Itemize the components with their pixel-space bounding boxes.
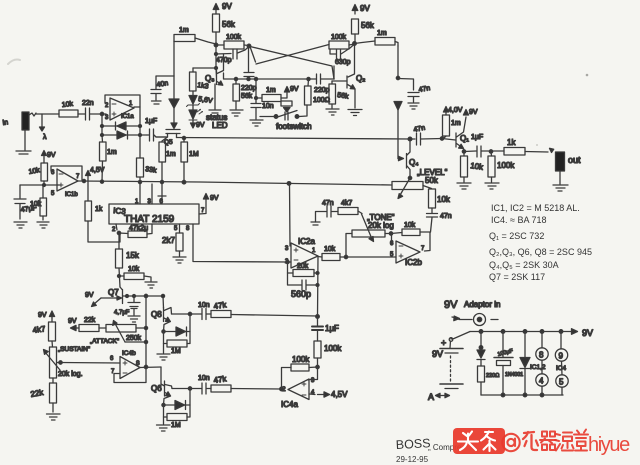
svg-text:+: +: [441, 338, 446, 348]
svg-text:4k7: 4k7: [341, 200, 352, 207]
resistor 47k (Q6 out): [211, 374, 282, 392]
wire to LED resistor: [193, 54, 216, 68]
resistor 10k (IC1b top): [28, 158, 47, 185]
svg-text:40n: 40n: [156, 80, 169, 89]
svg-text:630p: 630p: [335, 59, 351, 66]
svg-text:47k: 47k: [213, 374, 228, 385]
svg-text:10k: 10k: [128, 266, 140, 273]
resistor 33k: [137, 135, 158, 204]
watermark glyph qi: [540, 432, 556, 451]
svg-text:10k: 10k: [404, 222, 416, 229]
capacitor 47uF: [14, 185, 37, 228]
svg-text:22n: 22n: [82, 100, 94, 107]
resistor 1k3 (LED series): [190, 68, 209, 95]
input jack IN: [2, 112, 36, 154]
svg-text:50k: 50k: [425, 176, 439, 185]
svg-text:9V: 9V: [85, 292, 94, 299]
capacitor 40n with ground: [151, 76, 174, 104]
diode D1 (anti-parallel upper): [102, 122, 140, 130]
svg-text:9V: 9V: [222, 2, 232, 11]
capacitor 220p (series in bus): [314, 74, 334, 94]
resistor 10k (Q7 drain): [118, 266, 158, 288]
svg-text:4,5V: 4,5V: [331, 390, 348, 399]
svg-text:1m: 1m: [107, 149, 117, 156]
svg-text:1μF: 1μF: [145, 118, 157, 125]
svg-text:9V: 9V: [68, 318, 77, 325]
resistor 10k (level out): [423, 186, 451, 214]
resistor 100k (IC4a feedback): [282, 355, 318, 389]
svg-text:hiyue: hiyue: [588, 434, 630, 456]
svg-text:1m: 1m: [451, 120, 461, 127]
svg-text:9V: 9V: [210, 195, 219, 202]
capacitor 100uF: [494, 332, 514, 396]
op-amp IC1b: [51, 166, 82, 198]
svg-text:56k: 56k: [337, 92, 350, 101]
svg-text:100μF: 100μF: [497, 348, 514, 358]
wire crossover down to bus: [333, 66, 335, 79]
svg-text:λ: λ: [43, 134, 47, 141]
9V arrow (56k left): [213, 2, 232, 14]
signal bus wire y138: [177, 138, 413, 140]
resistor 10k (IC2a out): [318, 246, 396, 261]
svg-text:250k: 250k: [126, 335, 142, 342]
status LED: [189, 109, 205, 129]
transistor Q1: [442, 109, 478, 152]
capacitor 630p: [330, 44, 355, 66]
resistor 4k7 (tone): [338, 200, 362, 215]
svg-text:Q₄,Q₅ = 2SK 30A: Q₄,Q₅ = 2SK 30A: [489, 260, 559, 270]
IC3 pin 1: [135, 199, 139, 205]
diode (gate clamp): [169, 76, 179, 129]
svg-text:1M: 1M: [171, 422, 181, 429]
watermark toutiao red box: [453, 428, 630, 456]
capacitor 1uF (series to Q5): [145, 118, 166, 141]
diode (polarity) with 220 ohm: [477, 332, 485, 367]
resistor 47k (Q8 out): [211, 300, 318, 317]
svg-text:3: 3: [105, 115, 109, 121]
wire wiper to node: [125, 341, 146, 343]
svg-text:10n: 10n: [198, 302, 210, 309]
svg-text:10k: 10k: [437, 195, 451, 204]
resistor 56k (Q2 base): [326, 81, 349, 115]
FET Q4: [398, 139, 419, 178]
wire Q8 collector: [172, 313, 191, 315]
svg-text:2: 2: [112, 227, 116, 233]
resistor R 10k (input): [59, 101, 78, 117]
resistor 2k7 (IC3 pin5): [162, 224, 186, 263]
IC3 pin 8 wire to IC2a: [186, 224, 291, 262]
svg-text:100k: 100k: [324, 344, 342, 353]
label status LED: [206, 113, 228, 130]
resistor 100k (output load): [485, 152, 515, 190]
svg-text:IC2b: IC2b: [405, 258, 422, 267]
svg-text:15k: 15k: [126, 251, 140, 260]
resistor 20k (IC2a feedback): [288, 262, 318, 277]
op-amp IC1a: [105, 95, 140, 121]
FET Q5: [162, 130, 180, 147]
svg-text:1k3: 1k3: [197, 82, 209, 91]
capacitor 10n (footswitch): [250, 98, 274, 126]
transistor Q3: [205, 54, 224, 116]
svg-text:10k: 10k: [28, 167, 41, 176]
svg-text:4,0V: 4,0V: [448, 107, 463, 114]
diode D2 (anti-parallel lower): [102, 131, 147, 139]
9V arrow (56k right): [352, 4, 370, 14]
resistor 15k: [116, 233, 140, 287]
battery 9V: [428, 338, 463, 402]
wire Q6 collector: [172, 388, 190, 390]
svg-text:Q7 = 2SK 117: Q7 = 2SK 117: [489, 272, 545, 282]
svg-text:5,6V: 5,6V: [198, 96, 214, 105]
svg-text:20k log.: 20k log.: [58, 371, 83, 378]
wire 1uF to Q5: [156, 136, 168, 138]
svg-text:Q₂,Q₃, Q6, Q8 = 2SC 945: Q₂,Q₃, Q6, Q8 = 2SC 945: [489, 247, 592, 257]
svg-text:2k7: 2k7: [162, 236, 175, 245]
DC jack: [452, 314, 498, 326]
svg-text:47n: 47n: [322, 200, 334, 207]
wire IC2a output down: [317, 256, 320, 317]
svg-text:10k: 10k: [30, 201, 42, 208]
svg-text:22k: 22k: [84, 317, 96, 324]
svg-text:1m: 1m: [166, 151, 176, 158]
parts list IC types: [489, 203, 592, 282]
crossover left link: [251, 48, 256, 62]
svg-text:10k: 10k: [324, 246, 336, 253]
arrow at out jack: [550, 148, 554, 152]
capacitor 1uF (output): [464, 134, 491, 157]
watermark @ symbol: [502, 434, 519, 451]
svg-text:1m: 1m: [179, 27, 189, 34]
watermark glyph ke: [555, 433, 574, 451]
diode (Q4 gate line): [394, 102, 402, 159]
9V arrow (sustain top): [38, 311, 55, 319]
4,5V arrow at IC1b output: [86, 167, 105, 181]
svg-text:10n: 10n: [262, 103, 274, 110]
svg-text:5: 5: [174, 226, 178, 232]
transistor Q2: [332, 44, 365, 116]
node A arrow below input: [40, 114, 48, 141]
svg-text:9V: 9V: [582, 328, 593, 338]
svg-text:IC1a: IC1a: [121, 114, 134, 120]
IC3 pin 2: [112, 224, 117, 233]
capacitor 560p: [288, 273, 318, 299]
svg-text:9V: 9V: [38, 312, 47, 319]
capacitor 4,7uF: [114, 296, 140, 322]
footswitch: [260, 101, 312, 131]
ground (Q8 emitter): [157, 344, 170, 361]
potentiometer ATTACK 250k: [90, 321, 146, 346]
svg-text:47k: 47k: [213, 300, 228, 311]
svg-text:10n: 10n: [198, 375, 210, 382]
svg-text:6: 6: [110, 356, 114, 362]
wire attack node vertical: [145, 296, 147, 367]
svg-text:100k: 100k: [226, 34, 242, 41]
svg-text:„ATTACK“: „ATTACK“: [90, 338, 119, 345]
svg-text:56k: 56k: [222, 20, 236, 29]
svg-text:9V: 9V: [432, 349, 443, 359]
svg-text:9V: 9V: [444, 299, 458, 311]
svg-text:56k: 56k: [361, 21, 375, 30]
capacitor 22n: [78, 100, 106, 120]
svg-text:56k: 56k: [241, 93, 253, 100]
svg-text:A: A: [428, 392, 434, 402]
node at x102 input: [100, 112, 103, 115]
svg-text:100k: 100k: [497, 161, 515, 170]
svg-text:22k: 22k: [30, 388, 45, 399]
capacitor 470p: [216, 45, 249, 64]
svg-text:IC1,2: IC1,2: [530, 364, 546, 371]
svg-text:33k: 33k: [145, 166, 158, 175]
svg-text:in: in: [2, 119, 8, 127]
svg-text:220p: 220p: [241, 85, 257, 92]
resistor 1m (to clamp diode): [174, 27, 216, 44]
svg-text:Q6: Q6: [151, 384, 162, 393]
svg-text:IC1, IC2 = M 5218 AL.: IC1, IC2 = M 5218 AL.: [491, 203, 580, 213]
svg-text:IC4b: IC4b: [122, 350, 136, 357]
svg-text:20k: 20k: [297, 263, 309, 270]
svg-text:9V: 9V: [360, 4, 370, 13]
svg-text:6: 6: [51, 170, 55, 176]
IC3 pin 3 stub: [148, 184, 153, 205]
svg-text:9: 9: [559, 352, 564, 361]
svg-text:9V: 9V: [290, 86, 299, 93]
wire IC1b output bus y182: [78, 181, 392, 185]
svg-text:1M: 1M: [189, 151, 199, 158]
svg-text:footswitch: footswitch: [276, 122, 312, 131]
potentiometer SUSTAIN 20k log: [44, 346, 91, 378]
svg-text:220Ω: 220Ω: [486, 373, 499, 379]
power switch + 9V rail: [451, 328, 593, 339]
IC U3 THAT 2159: [109, 204, 199, 225]
diode (Q8): [164, 327, 191, 336]
resistor 1m (diode node to bus): [100, 135, 117, 182]
resistor 100k (to ref): [314, 341, 342, 367]
svg-text:BOSS: BOSS: [395, 436, 430, 452]
wire 1m down to Q4 gate: [397, 46, 399, 78]
wire input to R 10k: [36, 113, 59, 115]
svg-text:1M: 1M: [171, 348, 181, 355]
resistor 1M (Q8): [164, 314, 191, 355]
svg-text:1m: 1m: [266, 87, 276, 94]
resistor 56k (left bias): [213, 14, 236, 45]
svg-text:220p: 220p: [314, 87, 330, 94]
svg-text:8: 8: [186, 226, 190, 232]
wire bias rail y185: [20, 184, 58, 186]
svg-text:9V: 9V: [469, 109, 478, 116]
wire Q7 source bus y296: [127, 295, 163, 297]
svg-text:IC1b: IC1b: [65, 192, 78, 198]
svg-text:„SUSTAIN“: „SUSTAIN“: [58, 346, 90, 353]
IC power pin 8: [536, 332, 548, 361]
capacitor 47n (tone in): [427, 213, 452, 232]
watermark glyph tou: [458, 432, 478, 451]
svg-text:Q₄: Q₄: [409, 158, 419, 167]
svg-text:4,7μF: 4,7μF: [114, 310, 130, 316]
svg-text:29-12-95: 29-12-95: [396, 455, 429, 464]
resistor 220 ohm: [478, 366, 500, 395]
svg-text:5: 5: [559, 378, 564, 387]
svg-text:1: 1: [312, 248, 316, 254]
IC power pin 5: [556, 361, 568, 387]
svg-text:1: 1: [129, 101, 133, 107]
op-amp IC2a: [285, 237, 318, 268]
9V supply arrow (IC1b bias): [42, 151, 56, 160]
svg-text:47n: 47n: [413, 125, 426, 134]
resistor 10k (bias divider): [30, 185, 49, 228]
svg-text:1m: 1m: [377, 30, 387, 37]
svg-text:47n: 47n: [418, 85, 431, 94]
capacitor 10n (Q6 out): [190, 375, 211, 394]
wire Q3 collector to footswitch bus: [224, 73, 237, 79]
resistor 1m (Q1 base): [443, 107, 463, 139]
svg-text:8: 8: [539, 351, 544, 360]
capacitor 1uF (IC2a out): [312, 317, 339, 342]
crossover wire B: [256, 45, 329, 65]
resistor 56k (right bias): [352, 19, 375, 43]
svg-text:Q8: Q8: [151, 310, 162, 319]
svg-text:1N4001: 1N4001: [505, 372, 523, 378]
svg-text:47n: 47n: [440, 213, 452, 220]
svg-text:Q₂: Q₂: [356, 74, 365, 83]
wire 1m left end down: [173, 41, 175, 76]
capacitor 47n (tone) with ground: [311, 200, 338, 225]
IC3 pin 6 stub: [158, 184, 166, 205]
resistor 47k24 (IC3 bottom): [119, 224, 152, 238]
ground (Q6 emitter): [157, 417, 171, 431]
svg-text:100k: 100k: [331, 34, 347, 41]
resistor 1k to IC3: [85, 182, 120, 242]
svg-text:9V: 9V: [47, 152, 56, 159]
op-amp IC4b: [110, 350, 161, 383]
svg-text:5: 5: [51, 191, 55, 197]
FET Q7: [85, 287, 127, 307]
diode 1N4001: [505, 332, 530, 396]
9V Adaptor in label: [444, 299, 500, 311]
resistor 1M (Q5 right): [181, 139, 199, 183]
svg-text:Q₁: Q₁: [460, 134, 469, 143]
resistor 10k (IC2b feedback): [391, 222, 430, 251]
resistor 56k (footswitch left): [230, 79, 253, 116]
ground rail: [481, 394, 563, 396]
resistor 100k (right feedback): [329, 34, 355, 49]
wire bus to IC2a pin3: [289, 183, 292, 246]
svg-text:9V: 9V: [196, 122, 205, 129]
svg-text:IC4. ≈ BA 718: IC4. ≈ BA 718: [491, 215, 546, 225]
svg-text:Q₁ = 2SC 732: Q₁ = 2SC 732: [489, 231, 544, 241]
resistor 22k (sustain bottom): [30, 378, 60, 420]
svg-text:2: 2: [282, 386, 286, 393]
svg-text:7: 7: [76, 174, 80, 180]
resistor 10k (Q1 emitter): [457, 152, 485, 190]
capacitor 10n (Q8 out): [190, 302, 211, 320]
svg-text:10k: 10k: [470, 161, 485, 172]
watermark glyph tiao: [481, 432, 496, 452]
svg-text:LED: LED: [212, 121, 228, 130]
9V arrow (attack left): [68, 318, 79, 331]
output jack OUT: [553, 152, 581, 191]
svg-text:IC4a: IC4a: [281, 400, 298, 409]
svg-text:4,5V: 4,5V: [90, 167, 105, 174]
svg-text:4k7: 4k7: [32, 324, 47, 335]
svg-text:100Ω: 100Ω: [313, 97, 330, 104]
svg-text:1μF: 1μF: [471, 134, 483, 141]
resistor 1m (Q5 left): [159, 142, 176, 182]
potentiometer LEVEL 50k: [392, 168, 448, 199]
crossover wire A: [250, 47, 334, 80]
IC power pin 4: [536, 360, 548, 386]
svg-text:1k: 1k: [95, 206, 103, 213]
resistor 100 ohm (footswitch right): [305, 79, 331, 105]
svg-text:Adaptor in: Adaptor in: [464, 300, 500, 309]
svg-text:out: out: [568, 155, 581, 165]
wire IC1a output down: [134, 107, 140, 135]
svg-text:8: 8: [136, 360, 140, 367]
op-amp IC4a: [281, 367, 348, 409]
svg-text:THAT 2159: THAT 2159: [124, 214, 175, 225]
svg-text:3: 3: [285, 246, 289, 252]
svg-text:20k log: 20k log: [368, 221, 394, 230]
transistor Q8: [151, 296, 172, 332]
op-amp IC2b: [390, 234, 425, 268]
capacitor 47n (series bus): [412, 125, 442, 145]
diode (Q6): [164, 401, 191, 410]
IC power pin 9: [555, 332, 567, 362]
svg-text:4: 4: [539, 377, 544, 386]
wire inverting input down: [101, 114, 103, 135]
capacitor 47n (Q2 side) with ground: [398, 79, 431, 110]
transistor Q6: [151, 367, 172, 405]
svg-text:560p: 560p: [291, 289, 311, 299]
resistor 1m (right): [355, 30, 399, 46]
resistor 22k (attack): [79, 317, 106, 332]
svg-text:1k: 1k: [507, 138, 516, 147]
svg-text:2: 2: [105, 103, 109, 109]
svg-text:10k: 10k: [61, 101, 73, 109]
svg-text:Q₃: Q₃: [205, 74, 214, 83]
resistor 1m (footswitch): [256, 79, 299, 102]
title BOSS Compressor: [395, 436, 461, 464]
footswitch bus wire y79: [236, 78, 316, 80]
resistor 4k7 (sustain): [32, 318, 55, 347]
zener 5,6V: [187, 96, 214, 111]
watermark glyph tang: [574, 430, 588, 451]
watermark glyph le: [523, 432, 538, 450]
wire sustain wiper to IC4b: [61, 362, 121, 365]
svg-text:100k: 100k: [292, 355, 310, 364]
node 56k/100k: [214, 43, 218, 47]
potentiometer TONE 20k log: [346, 213, 395, 257]
capacitor 220p (from node): [241, 47, 257, 93]
resistor 1M (Q6): [164, 389, 191, 430]
resistor 1k (output series): [491, 138, 548, 155]
resistor 100k (left feedback): [216, 34, 249, 49]
svg-text:1μF: 1μF: [325, 324, 339, 333]
IC3 pin 7 to 9V: [199, 194, 219, 215]
svg-text:IC2a: IC2a: [298, 237, 315, 246]
